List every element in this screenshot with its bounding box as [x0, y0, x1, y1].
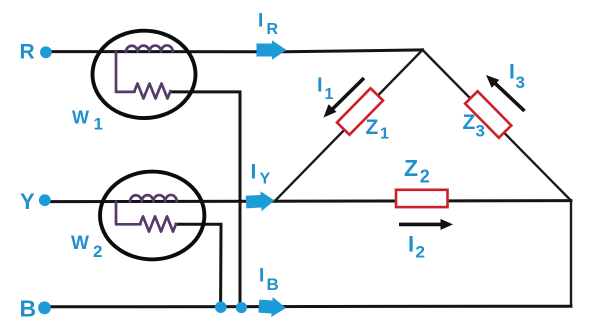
- svg-text:1: 1: [94, 115, 103, 134]
- svg-text:R: R: [20, 41, 35, 64]
- svg-text:I: I: [408, 232, 414, 257]
- svg-text:2: 2: [416, 242, 425, 261]
- svg-text:Z: Z: [404, 155, 418, 181]
- svg-text:Y: Y: [260, 171, 271, 188]
- svg-text:1: 1: [380, 125, 389, 142]
- svg-text:Z: Z: [366, 116, 379, 139]
- svg-text:2: 2: [93, 242, 102, 261]
- svg-text:2: 2: [420, 167, 430, 187]
- svg-text:R: R: [267, 21, 279, 38]
- svg-text:W: W: [72, 108, 89, 128]
- svg-text:B: B: [20, 296, 37, 322]
- svg-text:Y: Y: [20, 189, 35, 214]
- svg-text:3: 3: [476, 121, 485, 140]
- svg-text:3: 3: [516, 73, 525, 92]
- svg-text:I: I: [251, 161, 257, 184]
- svg-text:I: I: [259, 266, 264, 287]
- svg-text:I: I: [509, 61, 515, 84]
- svg-text:I: I: [317, 75, 323, 97]
- svg-text:B: B: [267, 275, 279, 294]
- svg-text:1: 1: [325, 86, 334, 103]
- svg-text:Z: Z: [463, 111, 476, 134]
- svg-text:I: I: [258, 11, 263, 32]
- svg-text:W: W: [71, 233, 89, 254]
